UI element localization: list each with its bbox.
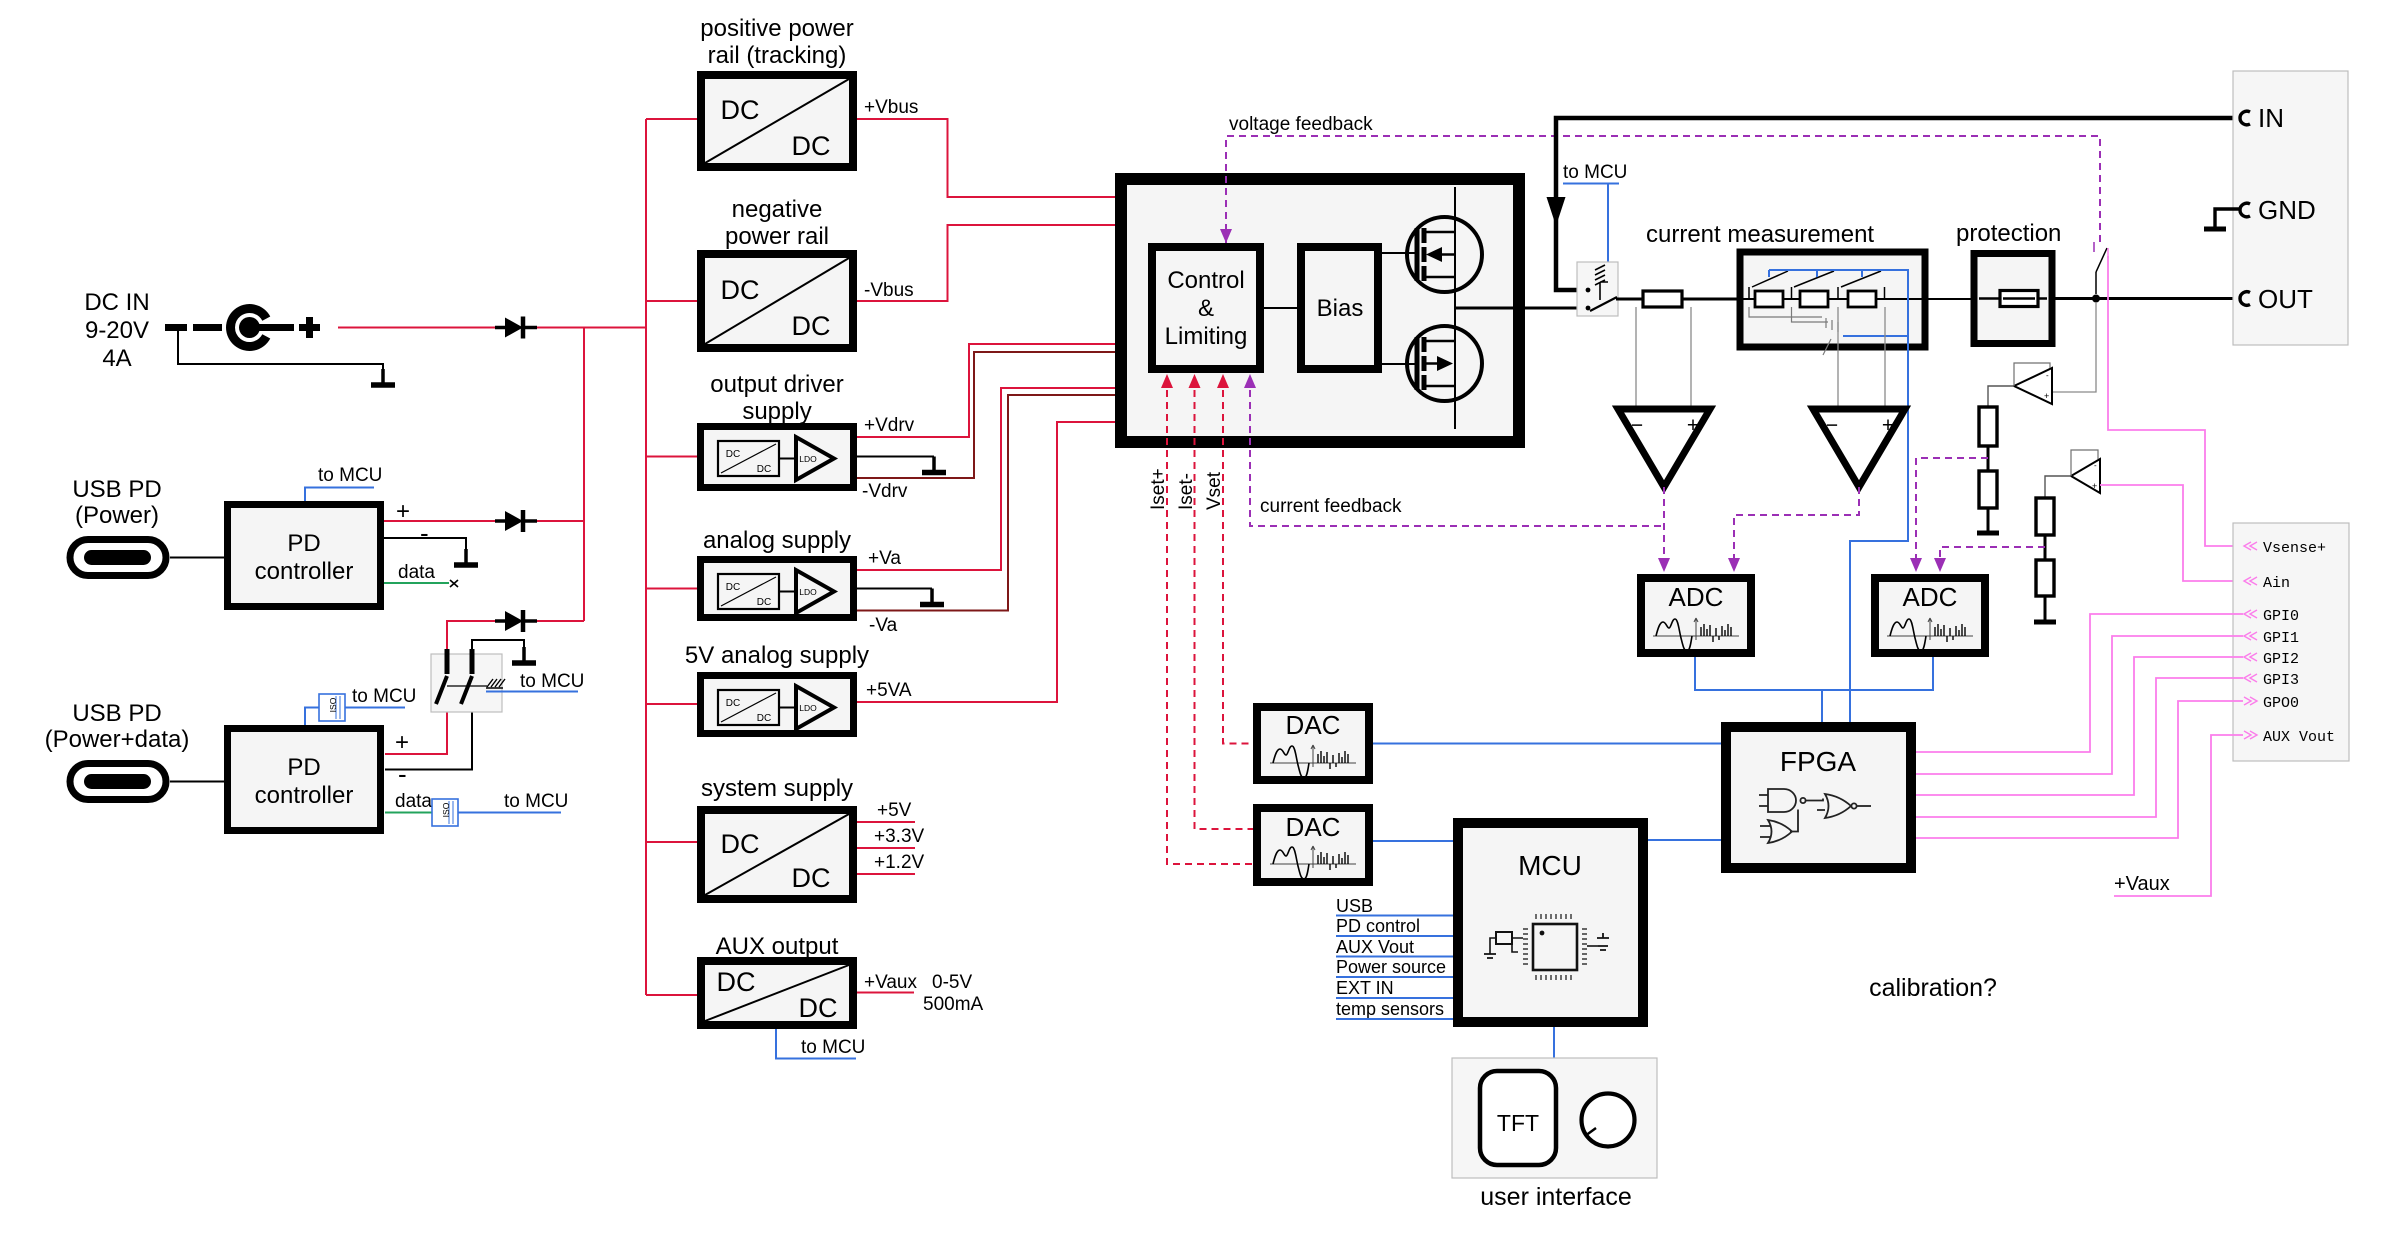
pin Vsense+ [2244, 540, 2326, 557]
svg-text:temp sensors: temp sensors [1336, 999, 1444, 1019]
svg-text:ISO: ISO [328, 697, 338, 712]
wire PD2 control to ISO [305, 708, 319, 726]
arrow into ADC1 right [1728, 558, 1740, 572]
TFT display [1480, 1071, 1556, 1165]
svg-text:DC: DC [717, 967, 756, 997]
wire +Vbus [857, 119, 1115, 197]
pin GPI3 [2244, 672, 2299, 689]
ground symbol (PD1) [454, 549, 478, 565]
wire control to bias [1264, 307, 1301, 309]
wire Iset+ [1167, 378, 1253, 864]
diode D1 [495, 317, 537, 339]
pin Ain [2244, 575, 2290, 592]
wire Iset- [1195, 378, 1254, 829]
svg-text:+1.2V: +1.2V [874, 852, 925, 873]
wire DAC1 to FPGA [1373, 743, 1721, 745]
wire bus stub analog supply [646, 588, 697, 590]
svg-text:AUX Vout: AUX Vout [1336, 937, 1414, 957]
pin IN [2240, 103, 2284, 133]
relay K2 [431, 649, 505, 712]
svg-text:-: - [420, 518, 429, 548]
wire PD2 data [385, 812, 432, 814]
svg-text:EXT IN: EXT IN [1336, 978, 1394, 998]
wire analog mid to ground [857, 588, 932, 590]
current measurement box [1740, 252, 1925, 347]
USB-C connector CN2 [70, 764, 166, 800]
svg-text:LDO: LDO [799, 703, 817, 713]
wire MCU to user interface [1553, 1027, 1555, 1058]
positive power rail label [700, 15, 853, 69]
svg-text:DC: DC [726, 449, 740, 460]
rotary knob [1582, 1094, 1635, 1147]
wire protection to OUT [2052, 297, 2243, 300]
wire PD1 negative [384, 538, 466, 549]
svg-text:GND: GND [2258, 195, 2316, 225]
wire divider2 tap to ADC [1940, 547, 2045, 566]
svg-text:-: - [2046, 371, 2049, 380]
svg-text:USB: USB [1336, 896, 1373, 916]
isolator ISO2 [432, 799, 458, 826]
PD controller U11 [228, 729, 381, 831]
pin GPI0 [2244, 608, 2299, 625]
svg-text:GPI1: GPI1 [2263, 630, 2299, 647]
wire DAC2 to MCU [1373, 840, 1453, 842]
diode D3 [495, 610, 537, 632]
svg-text:DC: DC [726, 582, 740, 593]
resistor R8 [2036, 560, 2054, 596]
shunt resistor R1 [1643, 291, 1682, 307]
wire relay pole2 to ground [472, 640, 524, 649]
svg-text:Limiting: Limiting [1165, 323, 1248, 350]
wire +1.2V [857, 873, 915, 875]
wire divider1 to ground [1987, 508, 1990, 533]
output driver supply module [701, 427, 854, 488]
wire +Va [857, 388, 1115, 570]
pin AUX Vout [2244, 729, 2335, 746]
svg-text:0-5V: 0-5V [932, 972, 972, 993]
arrow Iset+ [1161, 374, 1173, 388]
transistor Q1 [1407, 217, 1482, 292]
wire buffer U5 to divider [1988, 386, 2014, 407]
wire divider1 tap to ADC [1916, 458, 1988, 566]
pin GPO0 [2244, 695, 2299, 712]
wire +5V [857, 821, 915, 823]
svg-text:+5VA: +5VA [866, 680, 912, 701]
wire PD1 positive [384, 520, 496, 522]
output amplifier stage box [1121, 179, 1519, 442]
arrow IN down [1547, 197, 1566, 226]
svg-text:positive power: positive power [700, 15, 853, 42]
wire D3 to node [537, 620, 584, 622]
wire PD1 to MCU [305, 488, 374, 502]
DC/DC converter (AUX output) [701, 961, 853, 1025]
DAC U12 [1257, 808, 1369, 882]
wire shunt to current measurement [1682, 298, 1740, 301]
svg-text:+5V: +5V [877, 800, 912, 821]
DC IN label [84, 289, 149, 372]
wire buffer U6 to divider2 [2045, 476, 2071, 498]
wire output stage to relay [1455, 307, 1589, 310]
svg-text:FPGA: FPGA [1780, 746, 1857, 777]
svg-text:5V analog supply: 5V analog supply [685, 642, 869, 669]
wire relay K1 common to shunt [1616, 298, 1643, 301]
svg-text:4A: 4A [102, 345, 131, 372]
wire bus stub AUX output [646, 994, 697, 996]
arrow into ADC1 [1658, 558, 1670, 572]
transistor Q2 [1407, 326, 1482, 401]
svg-text:PD: PD [287, 754, 320, 781]
svg-text:−: − [1631, 414, 1643, 437]
wire +Vaux [857, 992, 914, 994]
range select lines [1749, 307, 1838, 355]
wire -Va [857, 395, 1115, 611]
svg-text:MCU: MCU [1518, 850, 1582, 881]
MCU U14 [1458, 823, 1643, 1022]
comparator U3 (shunt) [1618, 409, 1710, 487]
svg-text:&: & [1198, 295, 1214, 322]
svg-text:current feedback: current feedback [1260, 496, 1402, 517]
wire MCU to FPGA [1648, 839, 1721, 841]
wire bias to Q2 gate [1382, 363, 1417, 365]
resistor R7 [2036, 498, 2054, 535]
svg-text:DC: DC [792, 863, 831, 893]
DC/DC converter (system supply) [701, 810, 853, 899]
svg-text:Ain: Ain [2263, 575, 2290, 592]
svg-text:LDO: LDO [799, 454, 817, 464]
wire current feedback [1250, 378, 1664, 526]
wire Vset [1223, 378, 1253, 744]
arrow divider2 tap [1934, 558, 1946, 572]
svg-text:(Power): (Power) [75, 502, 159, 529]
svg-text:TFT: TFT [1497, 1110, 1539, 1136]
svg-text:+: + [2044, 391, 2049, 401]
wire OUT to buffer U5 [2052, 302, 2096, 392]
wire bus stub positive rail [646, 118, 697, 120]
junction OUT sense [2092, 295, 2100, 303]
port box IN/GND/OUT [2233, 71, 2348, 345]
DAC U9 [1257, 707, 1369, 780]
wire DC IN positive [338, 327, 496, 329]
wire FPGA to GPI3 [1916, 678, 2243, 817]
wire +5VA [857, 422, 1115, 702]
svg-text:to MCU: to MCU [520, 671, 584, 692]
wire ISO1 to MCU [345, 707, 405, 709]
svg-text:GPI3: GPI3 [2263, 672, 2299, 689]
buffer amplifier U5 [2014, 363, 2052, 404]
svg-text:DC: DC [721, 275, 760, 305]
svg-text:USB PD: USB PD [72, 700, 161, 727]
svg-text:-Vdrv: -Vdrv [862, 481, 908, 502]
wire D2 to node [537, 520, 584, 522]
svg-text:data: data [395, 791, 432, 812]
svg-text:IN: IN [2258, 103, 2284, 133]
analog supply module [701, 560, 854, 618]
wire divider1 mid [1987, 446, 1990, 471]
wire -Vbus [857, 225, 1115, 301]
svg-text:GPO0: GPO0 [2263, 695, 2299, 712]
wire ISO2 to MCU [458, 812, 561, 814]
range resistor R3 [1800, 291, 1828, 307]
svg-text:DAC: DAC [1286, 710, 1341, 740]
wire gain mux control [1843, 335, 1908, 337]
ground symbol (DC IN) [371, 369, 395, 385]
output driver supply label [710, 371, 843, 425]
svg-text:Bias: Bias [1317, 295, 1364, 322]
wire comparator U3 to ADC1 [1663, 487, 1665, 560]
pin GPI1 [2244, 630, 2299, 647]
svg-text:to MCU: to MCU [1563, 162, 1627, 183]
svg-text:analog supply: analog supply [703, 527, 851, 554]
svg-text:Iset+: Iset+ [1148, 468, 1169, 510]
svg-text:supply: supply [742, 398, 811, 425]
wire bus stub driver supply [646, 456, 697, 458]
ADC U8 [1875, 578, 1985, 653]
svg-text:power rail: power rail [725, 223, 829, 250]
wire through current measurement [1740, 298, 1928, 300]
wire IN rail [1556, 118, 2243, 290]
svg-text:+Vdrv: +Vdrv [864, 415, 915, 436]
wire comparator U4 to ADC1 [1734, 487, 1859, 560]
wire FPGA to GPI0 [1916, 614, 2243, 752]
protection box [1974, 254, 2052, 344]
wire drain/source rail [1454, 187, 1456, 429]
resistor R5 [1979, 407, 1997, 446]
svg-text:USB PD: USB PD [72, 476, 161, 503]
svg-text:calibration?: calibration? [1869, 974, 1997, 1002]
wire PD control [1336, 935, 1453, 937]
wire -Vdrv [857, 352, 1115, 478]
USB-C connector CN1 [70, 540, 166, 576]
svg-text:+Vaux: +Vaux [2114, 873, 2170, 895]
wire AUX to MCU [776, 1029, 856, 1059]
bias block U2 [1301, 247, 1378, 369]
wire CN1 to PD controller [170, 557, 224, 559]
svg-text:ADC: ADC [1903, 582, 1958, 612]
wire temp sensors [1336, 1018, 1453, 1020]
svg-text:PD control: PD control [1336, 916, 1420, 936]
negative power rail label [725, 196, 829, 250]
wire FPGA to GPI2 [1916, 657, 2243, 795]
5V analog supply module [701, 676, 854, 734]
FPGA U13 [1726, 727, 1911, 868]
ground symbol (relay K2) [512, 647, 536, 663]
wire range taps to comparator [1838, 307, 1885, 409]
svg-text:-Vbus: -Vbus [864, 280, 914, 301]
wire relay K1 coil to MCU [1563, 184, 1619, 267]
resistor R6 [1979, 471, 1997, 508]
svg-text:+Va: +Va [868, 548, 901, 569]
diode D2 [495, 510, 537, 532]
svg-text:controller: controller [255, 558, 354, 585]
wire to protection [1928, 298, 1974, 300]
svg-text:+: + [395, 729, 409, 756]
wire DC IN return [178, 329, 383, 369]
buffer amplifier U6 [2071, 450, 2100, 493]
svg-text:500mA: 500mA [923, 994, 984, 1015]
svg-text:+: + [1687, 414, 1699, 437]
PD controller U10 [228, 505, 381, 607]
svg-text:PD: PD [287, 530, 320, 557]
wire voltage feedback [1226, 136, 2100, 247]
wire ADCs to FPGA [1695, 657, 1933, 722]
relay K1 [1577, 262, 1618, 316]
wire Power source [1336, 976, 1453, 978]
wire bus stub system supply [646, 841, 697, 843]
sense selector switch [2094, 242, 2108, 294]
svg-text:to MCU: to MCU [504, 791, 568, 812]
svg-text:voltage feedback: voltage feedback [1229, 114, 1373, 135]
svg-text:GPI2: GPI2 [2263, 651, 2299, 668]
control and limiting block U1 [1152, 247, 1260, 369]
wire AUX Vout net [2114, 735, 2243, 896]
fuse F1 [1979, 291, 2047, 307]
svg-text:ISO: ISO [441, 802, 451, 817]
wire divider2 to ground [2044, 596, 2047, 622]
svg-text:DAC: DAC [1286, 812, 1341, 842]
range resistor R4 [1848, 291, 1876, 307]
wire AUX Vout [1336, 956, 1453, 958]
svg-text:protection: protection [1956, 220, 2061, 247]
wire FPGA to GPO0 [1916, 701, 2243, 838]
svg-text:output driver: output driver [710, 371, 843, 398]
arrow current feedback [1244, 374, 1256, 388]
svg-text:Vsense+: Vsense+ [2263, 540, 2326, 557]
port box sense/GPIO [2233, 523, 2349, 761]
ground bar (divider1) [1977, 531, 1999, 536]
svg-text:Power source: Power source [1336, 957, 1446, 977]
arrow divider1 tap [1910, 558, 1922, 572]
svg-text:to MCU: to MCU [318, 465, 382, 486]
wire bias to Q1 gate [1382, 252, 1417, 254]
svg-text:negative: negative [732, 196, 823, 223]
wire +3.3V [857, 847, 915, 849]
svg-text:DC IN: DC IN [84, 289, 149, 316]
wire D1 to bus [537, 327, 646, 329]
wire EXT IN [1336, 997, 1453, 999]
barrel jack J1 [165, 309, 320, 347]
wire FPGA to GPI1 [1916, 636, 2243, 774]
wire bypass control bus [1769, 270, 1908, 722]
svg-text:to MCU: to MCU [352, 686, 416, 707]
wire bus stub 5V analog supply [646, 703, 697, 705]
svg-text:ADC: ADC [1669, 582, 1724, 612]
wire PD2 negative to relay [385, 676, 472, 770]
svg-text:data: data [398, 562, 435, 583]
svg-text:+Vaux: +Vaux [864, 972, 917, 993]
wire Ain to buffer U6 [2100, 485, 2243, 581]
svg-text:Control: Control [1167, 267, 1244, 294]
svg-text:current measurement: current measurement [1646, 221, 1874, 248]
svg-text:user interface: user interface [1480, 1183, 1631, 1211]
svg-text:+Vbus: +Vbus [864, 97, 918, 118]
ground bar (divider2) [2034, 620, 2056, 625]
USB PD (Power+data) label [45, 700, 190, 753]
range resistor R2 [1755, 291, 1783, 307]
svg-text:DC: DC [757, 464, 771, 475]
arrow Iset- [1189, 374, 1201, 388]
power bus [645, 119, 647, 995]
wire +Vdrv [857, 344, 1115, 437]
svg-text:-: - [2094, 461, 2097, 470]
wire PD2 positive to relay [385, 676, 447, 754]
pin OUT [2240, 284, 2313, 314]
bypass switches [1749, 271, 1885, 299]
svg-text:GPI0: GPI0 [2263, 608, 2299, 625]
ground symbol (GND pin) [2204, 209, 2240, 229]
svg-text:+: + [2092, 481, 2097, 491]
svg-text:-Va: -Va [869, 615, 898, 636]
wire driver mid to ground [857, 456, 934, 458]
svg-text:Vset: Vset [1204, 471, 1225, 510]
DC/DC converter (negative rail) [701, 254, 853, 348]
user interface box [1452, 1058, 1657, 1178]
svg-text:-: - [398, 759, 407, 789]
svg-text:rail (tracking): rail (tracking) [708, 42, 847, 69]
svg-text:to MCU: to MCU [801, 1037, 865, 1058]
wire USB [1336, 915, 1453, 917]
ground symbol (analog supply) [920, 589, 944, 605]
ADC U7 [1641, 578, 1751, 653]
comparator U4 (range) [1813, 409, 1905, 487]
svg-text:AUX output: AUX output [716, 933, 839, 960]
node OR-ing vertical [583, 328, 585, 622]
svg-text:DC: DC [721, 829, 760, 859]
svg-text:+3.3V: +3.3V [874, 826, 925, 847]
svg-text:LDO: LDO [799, 587, 817, 597]
wire divider2 mid [2044, 535, 2047, 560]
svg-text:OUT: OUT [2258, 284, 2313, 314]
svg-text:controller: controller [255, 782, 354, 809]
svg-text:system supply: system supply [701, 775, 853, 802]
pin GPI2 [2244, 651, 2299, 668]
svg-text:(Power+data): (Power+data) [45, 726, 190, 753]
svg-text:DC: DC [726, 698, 740, 709]
wire relay coil to MCU [486, 691, 578, 693]
svg-text:9-20V: 9-20V [85, 317, 149, 344]
svg-text:DC: DC [757, 597, 771, 608]
wire Vsense+ [2108, 256, 2243, 546]
isolator ISO1 [319, 694, 345, 721]
svg-text:DC: DC [792, 131, 831, 161]
svg-text:DC: DC [799, 993, 838, 1023]
svg-text:DC: DC [721, 95, 760, 125]
arrow voltage feedback [1220, 229, 1232, 243]
svg-text:DC: DC [757, 713, 771, 724]
no-connect mark [450, 580, 458, 587]
arrow Vset [1217, 374, 1229, 388]
pin GND [2240, 195, 2316, 225]
USB PD (Power) label [72, 476, 161, 529]
svg-text:AUX Vout: AUX Vout [2263, 729, 2335, 746]
wire sense + to comparator [1690, 307, 1692, 409]
svg-text:DC: DC [792, 311, 831, 341]
svg-text:−: − [1826, 414, 1838, 437]
wire bus stub negative rail [646, 300, 697, 302]
ground symbol (driver supply) [922, 457, 946, 473]
DC/DC converter (positive rail) [701, 75, 853, 167]
wire relay pole1 up to diode line [447, 621, 496, 649]
svg-text:+: + [1882, 414, 1894, 437]
wire sense - to comparator [1635, 307, 1637, 409]
wire CN2 to PD controller [170, 781, 224, 783]
wire PD1 data (unused) [384, 582, 449, 584]
